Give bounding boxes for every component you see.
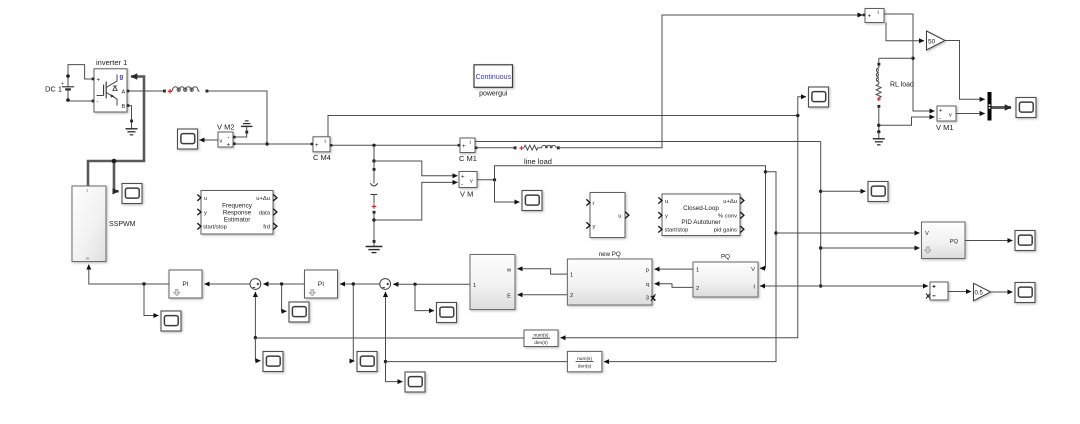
wire CM4 net to scope: [798, 97, 806, 116]
svg-text:E: E: [507, 293, 511, 299]
svg-text:+: +: [461, 175, 465, 181]
wire bus C M4 to C M1: [332, 144, 460, 146]
svg-text:pid gains: pid gains: [714, 228, 737, 234]
svg-text:data: data: [259, 210, 271, 216]
svg-text:+: +: [315, 143, 319, 149]
svg-text:Response: Response: [223, 210, 252, 217]
wire gain 0.5 to scope: [991, 291, 1013, 293]
wire TF2 feedback into sum2 bottom: [385, 292, 387, 362]
svg-text:Frequency: Frequency: [222, 203, 253, 210]
transfer fcn TF1: [524, 330, 558, 347]
wire TF2 out to sum2: [386, 361, 568, 363]
svg-text:Estimator: Estimator: [224, 217, 251, 224]
scope (PI2 branch): [289, 302, 309, 322]
svg-text:w: w: [506, 267, 512, 273]
svg-text:V M2: V M2: [217, 123, 235, 132]
scope (C M4 current): [809, 87, 829, 107]
wire mux out (thick) to scope: [992, 106, 1012, 109]
wire +i signal to gain 50: [886, 23, 924, 41]
wire to scope: [821, 190, 866, 192]
svg-text:num(s): num(s): [577, 356, 592, 362]
subsystem PQ right: [922, 222, 966, 259]
gain 50: [927, 31, 946, 50]
svg-text:+: +: [868, 14, 872, 20]
Closed-Loop PID Autotuner: [658, 194, 744, 236]
scope (right PQ): [1015, 231, 1035, 251]
svg-text:u+Δu: u+Δu: [723, 199, 737, 205]
svg-text:+: +: [61, 81, 64, 87]
sum rect block: [926, 282, 948, 300]
wire branch to scope: [255, 338, 260, 361]
wire V net to right PQ: [776, 232, 920, 234]
svg-text:-: -: [228, 135, 230, 141]
voltage measurement V M2: [217, 123, 236, 149]
wire PI1 out to SSPWM: [89, 265, 169, 285]
wire shunt top to V M +: [374, 161, 458, 176]
wire inverter B to ground: [129, 106, 131, 107]
wire TF1 feedback into sum1 bottom: [254, 292, 256, 338]
svg-text:2: 2: [696, 286, 699, 292]
sum1: [250, 279, 261, 290]
wire V M1 to mux: [956, 113, 985, 115]
wire line load to top right: [560, 15, 863, 148]
powergui: [474, 65, 513, 98]
wire branch to scope: [282, 284, 287, 311]
wire PQ out2 to q: [655, 284, 694, 288]
wire branch to scope: [415, 284, 434, 310]
svg-text:1: 1: [473, 283, 476, 289]
scope (sum1 feedback): [263, 352, 283, 372]
wire V M out: [477, 179, 495, 181]
svg-text:0.5: 0.5: [975, 291, 984, 297]
scope (mux): [1016, 98, 1036, 118]
wire TF1 out to sum1: [255, 337, 524, 339]
wire +i electrical out, down to RL load / V M1: [884, 14, 935, 111]
wire sum1 to PI1: [205, 283, 251, 285]
node shunt tap: [372, 144, 375, 147]
inductor L1: [163, 87, 208, 94]
Frequency Response Estimator: [197, 191, 277, 235]
scope (V M): [522, 191, 542, 211]
svg-text:r: r: [593, 201, 595, 207]
transfer fcn TF2: [567, 351, 602, 371]
V M2 + wire from bus: [235, 143, 268, 145]
svg-text:+: +: [462, 144, 466, 150]
inverter 1: [92, 58, 130, 112]
svg-text:1: 1: [696, 268, 699, 274]
svg-text:q: q: [646, 282, 649, 288]
junction: [112, 159, 117, 164]
wire inductor to node, down to bus: [208, 91, 313, 144]
svg-text:u: u: [618, 214, 621, 220]
subsystem w/E (flipped): [470, 255, 515, 310]
wire C M4 signal up and right: [328, 116, 798, 137]
wire V M out up, line load net to right: [495, 166, 766, 268]
scope (TF2 branch): [405, 372, 425, 392]
svg-text:frd: frd: [263, 225, 270, 231]
current measurement + i: [863, 9, 884, 23]
svg-text:3: 3: [646, 296, 649, 302]
wire to right PQ input 2: [821, 247, 920, 249]
svg-text:v: v: [949, 113, 952, 119]
svg-text:RL load: RL load: [890, 82, 914, 89]
PI controller PI2: [305, 270, 338, 298]
svg-text:den(s): den(s): [534, 340, 548, 346]
svg-text:Continuous: Continuous: [476, 74, 512, 81]
wire C M1 signal down right side: [820, 142, 822, 287]
wire (thick bus): [88, 77, 144, 187]
svg-text:-: -: [939, 116, 941, 122]
wire CM4 net into TF1: [561, 116, 798, 338]
svg-text:A: A: [122, 89, 126, 95]
scope (w/E branch): [437, 303, 457, 323]
wire sum2 to PI2: [340, 283, 380, 285]
wire V M2 v to scope: [200, 139, 219, 141]
svg-text:p: p: [646, 267, 649, 273]
subsystem PQ (flipped): [693, 254, 758, 298]
svg-text:V M1: V M1: [936, 123, 954, 132]
svg-text:line load: line load: [524, 157, 552, 166]
wire shunt bottom to V M -: [374, 182, 458, 220]
svg-text:powergui: powergui: [479, 91, 508, 98]
svg-text:den(s): den(s): [578, 364, 592, 370]
wire inverter A to inductor: [129, 90, 164, 92]
sum2: [380, 279, 391, 290]
svg-text:-: -: [97, 100, 99, 106]
scope (V M2): [178, 129, 198, 149]
wire C M1 signal right: [475, 141, 821, 143]
svg-text:inverter 1: inverter 1: [96, 58, 127, 67]
wire I to PQ mid: [760, 285, 821, 287]
wire new PQ out2 to E: [518, 294, 568, 296]
ground (V M2, inverted): [241, 121, 252, 134]
svg-text:1: 1: [570, 272, 573, 278]
svg-text:u: u: [204, 196, 207, 202]
svg-text:Closed-Loop: Closed-Loop: [683, 205, 719, 212]
wire DC+ to inverter +: [68, 65, 92, 79]
svg-text:+: +: [939, 109, 943, 115]
wire branch to scope: [386, 362, 403, 382]
svg-text:B: B: [122, 104, 126, 110]
svg-text:V: V: [925, 231, 929, 237]
svg-text:g: g: [120, 75, 124, 81]
svg-text:2: 2: [570, 293, 573, 299]
node A-bus: [265, 142, 268, 145]
wire DC- to inverter -: [68, 100, 92, 103]
wire right PQ to scope: [965, 240, 1013, 242]
svg-text:v: v: [220, 139, 223, 145]
wire PQ out1 to p: [655, 268, 694, 270]
svg-text:i: i: [878, 10, 879, 16]
svg-text:start/stop: start/stop: [203, 225, 227, 231]
wire gain 50 to mux: [945, 41, 985, 100]
mux: [988, 92, 992, 121]
svg-text:+: +: [227, 143, 231, 149]
wire I to sum rect: [821, 285, 928, 287]
svg-text:PI: PI: [182, 281, 188, 288]
wire sum rect to gain 0.5: [948, 291, 971, 293]
svg-text:PI: PI: [318, 281, 324, 288]
wire new PQ out1 to w: [518, 269, 568, 274]
scope (sum2 branch): [357, 352, 377, 372]
scope (C M1 current): [868, 182, 888, 202]
svg-text:50: 50: [928, 39, 936, 46]
series RLC line load branch: [477, 145, 559, 150]
controller subsystem r/y -> u: [586, 193, 629, 238]
voltage measurement V M1: [936, 106, 956, 132]
svg-text:+: +: [97, 78, 101, 84]
voltage measurement V M: [459, 172, 477, 199]
svg-text:C M4: C M4: [313, 153, 331, 162]
shunt branch (capacitor load): [366, 145, 383, 252]
IGBT symbol inside inverter: [106, 75, 117, 106]
svg-text:start/stop: start/stop: [665, 228, 689, 234]
svg-text:-: -: [461, 182, 463, 188]
svg-text:V: V: [751, 267, 755, 273]
wire V M out down to scope: [495, 180, 520, 202]
SSPWM: [72, 186, 136, 262]
svg-text:new PQ: new PQ: [599, 251, 621, 258]
scope (SSPWM bus): [122, 184, 142, 204]
svg-text:PID Autotuner: PID Autotuner: [681, 219, 720, 226]
svg-text:y: y: [204, 210, 207, 216]
svg-text:PQ: PQ: [950, 239, 959, 245]
current measurement C M1: [458, 138, 478, 163]
scope (PI1 branch): [161, 311, 181, 331]
wire branch to scope: [144, 284, 159, 316]
gain 0.5: [974, 283, 991, 301]
svg-text:C M1: C M1: [459, 154, 477, 163]
scope (gain 0.5): [1015, 283, 1035, 303]
svg-text:DC 1: DC 1: [45, 85, 62, 94]
svg-text:V M: V M: [460, 190, 473, 199]
wire RL bottom to V M1 -: [879, 117, 935, 125]
svg-text:y: y: [665, 214, 668, 220]
svg-text:PQ: PQ: [721, 254, 730, 261]
svg-text:u+Δu: u+Δu: [256, 196, 270, 202]
svg-text:SSPWM: SSPWM: [109, 221, 136, 228]
RL load branch: [873, 58, 914, 145]
svg-text:in: in: [86, 256, 89, 261]
wire w/E block out to sum2: [393, 283, 470, 285]
svg-text:y: y: [593, 224, 596, 230]
svg-text:v: v: [470, 179, 473, 185]
subsystem new PQ (flipped): [567, 251, 655, 305]
wire branch to scope: [353, 284, 354, 361]
svg-text:u: u: [665, 199, 668, 205]
current measurement C M4: [311, 137, 333, 162]
wire V net to PQ blocks and TF2: [604, 172, 776, 362]
wire (thick branch to scope): [114, 161, 119, 191]
wire PI2 out to sum1: [263, 283, 304, 285]
V M2 - wire to ground: [235, 134, 247, 138]
node V tap: [764, 170, 767, 173]
DC voltage source DC 1: [45, 74, 74, 102]
svg-text:i: i: [325, 139, 326, 145]
svg-text:% conv: % conv: [718, 214, 737, 220]
ground below inverter B: [126, 107, 138, 135]
svg-text:i: i: [470, 140, 471, 146]
PI controller PI1: [169, 270, 202, 298]
